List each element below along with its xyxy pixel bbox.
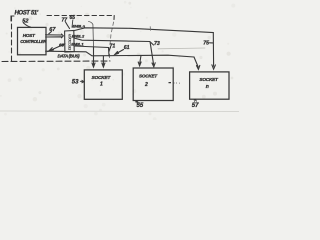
svg-text:n: n [206, 84, 209, 90]
host dashed box bottom edge [2, 60, 110, 63]
host dashed box top edge [47, 15, 114, 17]
host dashed box left edge [11, 16, 13, 61]
label 73 leader [151, 43, 154, 45]
svg-text:DECODER: DECODER [68, 34, 73, 51]
host dashed box right edge hook [113, 16, 115, 20]
svg-text:2: 2 [144, 82, 148, 88]
svg-text:ENBL 1: ENBL 1 [71, 41, 84, 46]
svg-text:52: 52 [22, 18, 29, 24]
svg-text:67: 67 [49, 27, 56, 33]
wire ENBL1 drop to socket 1 [92, 47, 95, 67]
wire ENBLn drop to socket n [212, 33, 216, 70]
svg-text:1: 1 [100, 82, 103, 88]
svg-text:53: 53 [72, 80, 79, 86]
socket 1 box [84, 70, 122, 99]
svg-text:61: 61 [124, 45, 130, 51]
wire data bus drop to socket 1 [102, 56, 105, 67]
label 71 leader [109, 48, 110, 51]
wire ENBL1 hook at dashed edge [108, 48, 111, 57]
svg-text:ENBL n: ENBL n [73, 23, 86, 28]
label 61 leader arrow [115, 50, 124, 55]
bus 67 arrow controller to decoder [46, 34, 64, 38]
junction tick on ENBLn at x150 [149, 27, 151, 31]
faint erased line right half [158, 47, 205, 50]
host dashed box top-left corner [11, 16, 14, 21]
label 67 tick [49, 32, 52, 34]
svg-text:HOST 51': HOST 51' [15, 10, 39, 16]
wire ENBL2 drop to socket 2 [150, 42, 155, 67]
label 53 leader arrow [80, 80, 84, 83]
svg-text:ENBL 2: ENBL 2 [72, 33, 85, 38]
svg-text:SOCKET: SOCKET [199, 77, 219, 82]
decoder U65 box [65, 30, 75, 52]
wire ENBLn top [74, 28, 213, 33]
label 57 leader arrow [194, 99, 196, 101]
svg-text:55: 55 [137, 103, 144, 109]
socket 2 box [133, 68, 173, 101]
wire data bus drop to socket 2 [138, 55, 141, 65]
svg-text:65: 65 [70, 15, 76, 21]
svg-text:DATA (BUS): DATA (BUS) [58, 53, 81, 58]
crease line vertical upper part [89, 22, 94, 47]
host controller box [18, 27, 47, 54]
svg-text:69: 69 [59, 43, 65, 48]
svg-text:57: 57 [192, 103, 199, 109]
wire ENBL1 bottom [74, 46, 109, 48]
scan artifact line bottom [0, 110, 239, 113]
svg-text:73: 73 [154, 41, 160, 47]
svg-text:75: 75 [203, 41, 209, 47]
dots between socket 2 and socket n [169, 82, 180, 85]
svg-text:HOST: HOST [23, 33, 36, 38]
svg-text:77: 77 [62, 18, 68, 24]
wire data bus horizontal [46, 51, 194, 57]
svg-text:SOCKET: SOCKET [139, 74, 158, 79]
wire data bus corner drop to socket n [194, 57, 200, 69]
label 55 leader arrow [136, 101, 140, 104]
label 77 leader [66, 22, 70, 29]
svg-text:CONTROLLER: CONTROLLER [20, 39, 46, 44]
label 52 leader [24, 23, 31, 27]
svg-text:SOCKET: SOCKET [92, 75, 112, 81]
label 65 leader [71, 20, 74, 27]
host dashed box right edge [109, 22, 113, 61]
label 75 leader dash [210, 42, 213, 44]
wire ENBL2 middle [74, 38, 150, 42]
socket n box [190, 72, 229, 99]
label 69 leader arrow [49, 44, 65, 51]
svg-text:71: 71 [110, 44, 116, 50]
